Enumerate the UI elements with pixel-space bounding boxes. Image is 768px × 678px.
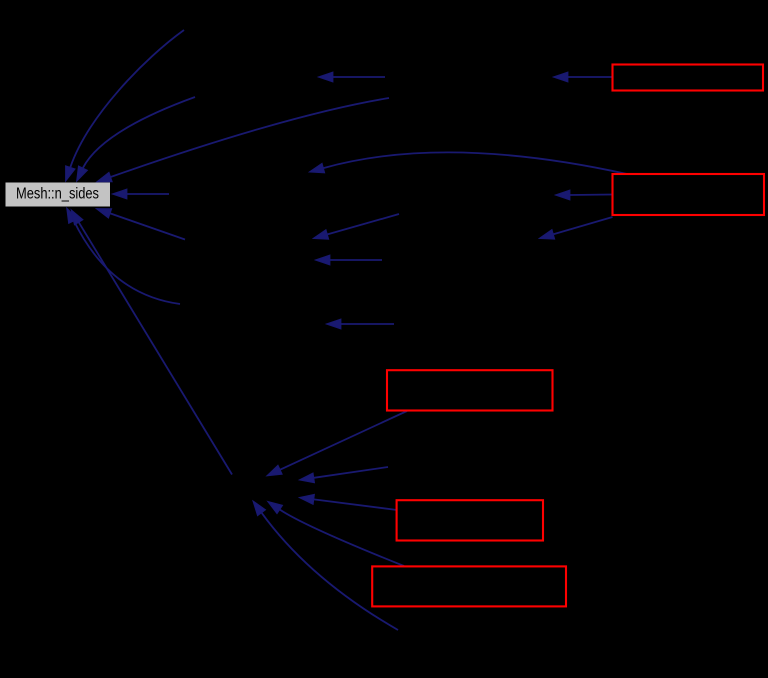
edge central caller -> Mesh::n_sides bbox=[71, 210, 232, 475]
node2 (linked caller node, label hidden on dark bg) bbox=[613, 174, 765, 215]
edge caller9 -> central caller bbox=[299, 467, 388, 483]
node5 (linked caller node, label hidden on dark bg) bbox=[372, 566, 566, 606]
edge caller7 -> caller8 bbox=[326, 319, 394, 329]
edge caller4 -> Mesh::n_sides bbox=[112, 189, 169, 199]
edge caller2 -> Mesh::n_sides bbox=[77, 97, 196, 182]
edge node4 -> central caller bbox=[299, 494, 397, 510]
edge node2 -> caller5 bbox=[539, 217, 613, 239]
edge caller3 -> caller2 bbox=[318, 72, 385, 82]
edge caller5 -> caller6 bbox=[313, 214, 399, 239]
edge caller6 -> Mesh::n_sides bbox=[96, 209, 185, 240]
edge node2 -> caller4 bbox=[309, 152, 627, 174]
node1 (linked caller node, label hidden on dark bg) bbox=[613, 65, 764, 91]
node Mesh::n_sides (current function) bbox=[6, 183, 111, 207]
edge node2 -> caller4b bbox=[555, 190, 613, 200]
node3 (linked caller node, label hidden on dark bg) bbox=[387, 370, 553, 410]
edge caller3 -> Mesh::n_sides bbox=[97, 98, 390, 182]
edge caller8 -> Mesh::n_sides bbox=[67, 208, 180, 304]
edge caller1 -> Mesh::n_sides bbox=[66, 30, 185, 182]
edge bottom caller -> central caller bbox=[253, 501, 398, 630]
edge node3 -> central caller bbox=[267, 411, 408, 476]
edge node5 -> central caller bbox=[267, 501, 404, 566]
edge node1 -> caller3 bbox=[553, 72, 613, 82]
svg-text:Mesh::n_sides: Mesh::n_sides bbox=[16, 186, 99, 203]
edge caller5b -> caller6 bbox=[315, 255, 382, 265]
node4 (linked caller node, label hidden on dark bg) bbox=[397, 500, 543, 540]
